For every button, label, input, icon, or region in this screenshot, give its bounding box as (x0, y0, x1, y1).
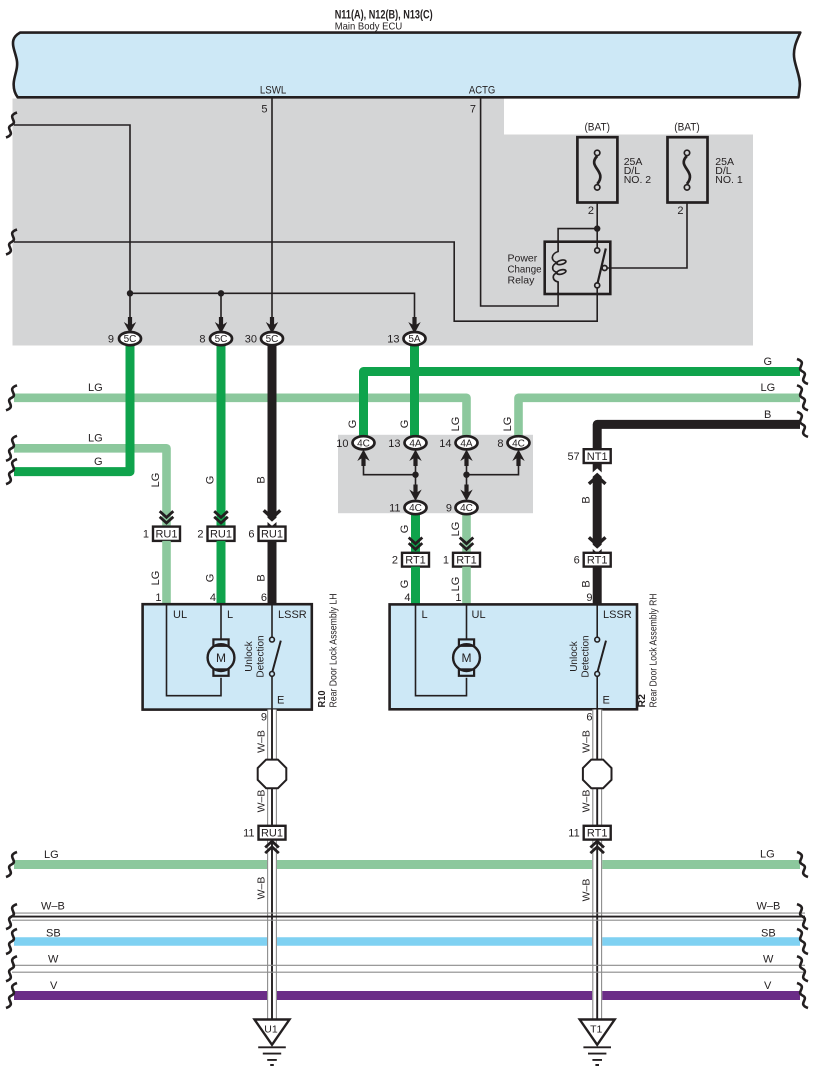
wire W horizontal band double lines (12, 965, 805, 972)
svg-text:7: 7 (470, 104, 476, 116)
svg-text:RU1: RU1 (261, 828, 283, 840)
junction dot coil/fuse node (594, 225, 600, 231)
svg-text:9: 9 (108, 334, 114, 346)
svg-text:B: B (581, 496, 593, 503)
wire ACTG pin7 to relay coil bottom (481, 99, 558, 307)
svg-text:G: G (204, 476, 216, 485)
svg-text:9: 9 (446, 503, 452, 515)
svg-text:2: 2 (588, 205, 594, 217)
svg-text:2: 2 (197, 529, 203, 541)
svg-text:5C: 5C (124, 334, 137, 345)
chevron pair into 6 RT1 (cut into black wire) (589, 543, 606, 550)
svg-text:B: B (764, 409, 771, 421)
break symbol LG band1 left (6, 385, 17, 410)
chevron pair up into 11 RT1 (590, 841, 604, 853)
wire branch down to 8(5C) (220, 293, 222, 323)
svg-text:R2: R2 (636, 694, 648, 708)
wire G band right to 10(4C) (364, 372, 801, 439)
wire from left break to relay switch lower contact (14, 242, 597, 321)
svg-text:11: 11 (389, 503, 400, 515)
W-B wire LH vertical white underlay (267, 710, 277, 1020)
svg-text:V: V (50, 980, 58, 992)
svg-text:RT1: RT1 (587, 555, 608, 567)
wire LG band right to 8(4C) (519, 398, 801, 438)
break symbol SB right (797, 929, 808, 954)
svg-text:L: L (422, 609, 428, 621)
svg-text:6: 6 (586, 712, 592, 724)
svg-text:RT1: RT1 (405, 555, 426, 567)
splice octagon LH (258, 760, 287, 789)
RH inner wiring (416, 605, 467, 696)
svg-text:8: 8 (497, 438, 503, 450)
arrow down into 9(4C) (460, 485, 472, 502)
svg-text:G: G (764, 356, 773, 368)
svg-text:LG: LG (88, 382, 103, 394)
svg-text:E: E (277, 695, 284, 707)
fuse 25A D/L NO.2 (577, 137, 617, 202)
svg-text:6: 6 (574, 555, 580, 567)
break symbol wire A left (6, 113, 17, 138)
LH inner wiring (167, 605, 222, 696)
arrow up into 14(4A) (460, 450, 472, 467)
svg-text:4A: 4A (460, 438, 473, 449)
break symbol G band right (797, 359, 808, 384)
arrow up into 10(4C) (357, 450, 369, 467)
svg-text:4C: 4C (409, 503, 422, 514)
chevron pair up out of NT1 (cut into black wire) (589, 471, 606, 478)
break symbol LG bottom left (6, 852, 17, 877)
svg-text:1: 1 (155, 592, 161, 604)
wire G from 13(5A) down to 13(4A) (410, 339, 419, 438)
svg-text:RU1: RU1 (261, 529, 283, 541)
arrow into 30(5C) (266, 317, 278, 334)
svg-text:2: 2 (392, 555, 398, 567)
svg-text:9: 9 (261, 712, 267, 724)
svg-text:W–B: W–B (41, 901, 65, 913)
svg-text:11: 11 (568, 828, 579, 840)
svg-text:LG: LG (44, 849, 59, 861)
wire LG RT1 to RH box pin1 (462, 567, 471, 605)
svg-text:W–B: W–B (256, 730, 268, 753)
connector 1 RT1 (453, 553, 480, 567)
ECU N11/N12/N13 block (13, 33, 800, 98)
svg-text:14: 14 (439, 438, 451, 450)
chevron pair into 1 RT1 (460, 538, 474, 550)
svg-text:M: M (462, 651, 472, 665)
break symbol W left (6, 956, 17, 981)
RH unlock detection switch (595, 605, 606, 709)
ground U1 earth lines (258, 1047, 286, 1065)
connector 2 RT1 (402, 553, 429, 567)
svg-text:LG: LG (150, 571, 162, 586)
svg-text:4C: 4C (512, 438, 525, 449)
chevron pair into 1 RU1 (160, 511, 174, 523)
wire LG short band to RU1 pin 1 (14, 448, 167, 527)
arrow into 13(5A) (408, 317, 420, 334)
arrow down into 11(4C) (409, 485, 421, 502)
svg-text:R10: R10 (316, 690, 328, 707)
svg-text:RT1: RT1 (456, 555, 477, 567)
arrow up into 8(4C) (512, 450, 524, 467)
wire B band right to 57 NT1 (597, 424, 800, 450)
svg-text:5A: 5A (408, 334, 421, 345)
svg-text:2: 2 (677, 205, 683, 217)
wire B RU1 to LH box pin6 (268, 541, 277, 605)
W-B wire RH vertical white underlay (592, 710, 602, 1020)
svg-text:4: 4 (404, 592, 410, 604)
break symbol B band right (797, 412, 808, 437)
svg-text:LG: LG (760, 849, 775, 861)
svg-text:1: 1 (455, 592, 461, 604)
wire from left break to node at x130 (to 9 5C) (14, 125, 130, 323)
wire G from 8(5C) down to RU1 (217, 339, 226, 528)
svg-text:Main Body ECU: Main Body ECU (335, 21, 403, 33)
svg-text:5C: 5C (266, 334, 279, 345)
svg-text:4: 4 (210, 592, 216, 604)
svg-text:LG: LG (150, 473, 162, 488)
ECU harness gray panel (13, 99, 754, 346)
svg-text:UL: UL (472, 609, 486, 621)
svg-text:Unlock: Unlock (244, 640, 255, 672)
wire G from 11(4C) to RT1 (411, 508, 420, 553)
svg-text:W: W (48, 954, 59, 966)
svg-text:G: G (204, 574, 216, 583)
svg-text:B: B (255, 476, 267, 483)
connector 6 RT1 (584, 553, 611, 567)
svg-text:Detection: Detection (256, 635, 267, 677)
svg-text:13: 13 (388, 438, 400, 450)
splice octagon RH (583, 760, 612, 789)
fuse 25A D/L NO.1 (668, 137, 708, 202)
svg-text:LG: LG (88, 433, 103, 445)
svg-text:U1: U1 (264, 1024, 278, 1036)
connector 57 NT1 (584, 449, 611, 463)
svg-text:4A: 4A (409, 438, 422, 449)
svg-text:57: 57 (567, 451, 579, 463)
ground T1 triangle (580, 1020, 615, 1045)
wire B RT1 to RH box pin9 (593, 567, 602, 605)
svg-text:Unlock: Unlock (569, 640, 580, 672)
rear door lock assembly LH box R10 (143, 604, 312, 709)
middle connector gray panel (338, 435, 533, 513)
wire W-B horizontal band (white wire, black stripe) (12, 913, 805, 920)
power change relay box (545, 242, 611, 294)
relay coil (552, 242, 566, 294)
svg-text:L: L (227, 609, 233, 621)
svg-text:LG: LG (450, 417, 462, 432)
motor M LH (208, 639, 235, 675)
svg-text:G: G (94, 456, 103, 468)
svg-text:W–B: W–B (581, 879, 593, 902)
svg-text:4C: 4C (357, 438, 370, 449)
wire branch to 8(5C) and 13(5A) (130, 293, 415, 323)
ground T1 earth lines (583, 1047, 611, 1065)
wire G RT1 to RH box pin4 (411, 567, 420, 605)
svg-text:G: G (399, 525, 411, 534)
svg-text:LSSR: LSSR (603, 609, 632, 621)
svg-text:E: E (603, 695, 610, 707)
wire B from 30(5C) down to RU1 (268, 339, 277, 528)
break symbol LG band2 left (6, 436, 17, 461)
arrow into 8(5C) (215, 317, 227, 334)
wire relay coil top to fuse DL2 line (558, 229, 597, 243)
W-B wire RH vertical (white wire, black stripe) (593, 710, 602, 1020)
break symbol W-B band right (797, 904, 808, 929)
svg-text:M: M (216, 651, 226, 665)
chevron pair into 6 RU1 (cut into black wire) (264, 516, 281, 523)
svg-text:W–B: W–B (256, 877, 268, 900)
chevron pair into 2 RT1 (409, 538, 423, 550)
connector oval 8 (4C) (508, 436, 530, 449)
junction dot mid right (463, 472, 469, 478)
svg-text:G: G (399, 420, 411, 429)
connector 2 RU1 (208, 527, 235, 541)
wire LG bottom band (14, 860, 800, 869)
arrow into 9(5C) (124, 317, 136, 334)
connector 11 RT1 bottom (584, 826, 611, 840)
svg-text:30: 30 (245, 334, 257, 346)
svg-text:LG: LG (450, 577, 462, 592)
break symbol V right (797, 983, 808, 1008)
connector oval 14 (4A) (456, 436, 478, 449)
break symbol W-B band left (6, 904, 17, 929)
svg-text:B: B (581, 580, 593, 587)
svg-text:10: 10 (336, 438, 348, 450)
break symbol V left (6, 983, 17, 1008)
svg-text:NO. 1: NO. 1 (715, 174, 743, 186)
svg-text:(BAT): (BAT) (674, 122, 700, 134)
wire B NT1 to 6 RT1 (593, 463, 602, 553)
svg-text:(BAT): (BAT) (584, 122, 610, 134)
svg-text:8: 8 (199, 334, 205, 346)
junction dot mid left (412, 472, 418, 478)
svg-text:B: B (255, 574, 267, 581)
chevron pair into 2 RU1 (214, 511, 228, 523)
svg-text:W–B: W–B (256, 790, 268, 813)
wire SB band (14, 937, 800, 946)
break symbol W right (797, 956, 808, 981)
svg-text:RU1: RU1 (155, 529, 177, 541)
wire V band (14, 991, 800, 1000)
wire fuse DL1 down to relay NO contact (607, 203, 687, 269)
svg-text:LSWL: LSWL (260, 85, 286, 97)
svg-text:T1: T1 (590, 1024, 602, 1036)
wire LG from 9(4C) to RT1 (462, 508, 471, 553)
wire LSWL pin5 to connector 30(5C) (271, 99, 273, 324)
svg-text:6: 6 (261, 592, 267, 604)
connector oval 11 (4C) (405, 501, 427, 514)
W-B wire LH vertical (white wire, black stripe) (268, 710, 277, 1020)
svg-text:Detection: Detection (581, 635, 592, 677)
relay switch contacts and blade (595, 248, 607, 288)
connector oval 13 (5A) (404, 332, 426, 345)
svg-text:SB: SB (761, 928, 776, 940)
wire LG RU1 to LH box pin1 (162, 541, 171, 605)
break symbol LG bottom right (797, 852, 808, 877)
wire G RU1 to LH box pin4 (217, 541, 226, 605)
connector oval 9 (5C) (119, 332, 141, 345)
wire G from 9(5C) to left break (14, 339, 130, 472)
svg-text:G: G (347, 420, 359, 429)
svg-text:9: 9 (586, 592, 592, 604)
svg-text:5C: 5C (215, 334, 228, 345)
break symbol SB left (6, 929, 17, 954)
svg-text:W–B: W–B (581, 790, 593, 813)
svg-text:1: 1 (143, 529, 149, 541)
svg-text:Rear Door Lock Assembly RH: Rear Door Lock Assembly RH (648, 594, 660, 708)
break symbol LG band right (797, 385, 808, 410)
chevron pair up into 11 RU1 (265, 841, 279, 853)
connector oval 30 (5C) (261, 332, 283, 345)
arrow up into 13(4A) (409, 450, 421, 467)
svg-text:13: 13 (387, 334, 399, 346)
svg-text:5: 5 (261, 104, 267, 116)
svg-text:NT1: NT1 (587, 451, 608, 463)
svg-text:RU1: RU1 (210, 529, 232, 541)
junction dot at 130,293 (127, 290, 133, 296)
break symbol wire B left (6, 230, 17, 255)
connector oval 8 (5C) (210, 332, 232, 345)
svg-text:RT1: RT1 (587, 828, 608, 840)
motor M RH (453, 639, 480, 675)
ground U1 triangle (255, 1020, 290, 1045)
svg-text:W–B: W–B (757, 901, 781, 913)
connector oval 13 (4A) (405, 436, 427, 449)
connector oval 10 (4C) (353, 436, 375, 449)
break symbol G band left (6, 459, 17, 484)
wire fuse DL2 down to relay switch top contact (596, 203, 598, 249)
svg-text:Relay: Relay (508, 275, 536, 287)
junction dot at 221,293 (218, 290, 224, 296)
svg-text:Rear Door Lock Assembly LH: Rear Door Lock Assembly LH (328, 594, 340, 708)
svg-text:6: 6 (248, 529, 254, 541)
svg-text:4C: 4C (460, 503, 473, 514)
svg-text:V: V (764, 980, 772, 992)
rear door lock assembly RH box R2 (390, 604, 637, 709)
connector 11 RU1 bottom (259, 826, 286, 840)
svg-text:11: 11 (243, 828, 254, 840)
wire LG horizontal band left, to 14(4A) (14, 398, 467, 438)
svg-text:UL: UL (173, 609, 187, 621)
svg-text:LG: LG (761, 382, 776, 394)
svg-text:LG: LG (502, 417, 514, 432)
junction wiring inside middle gray panel (364, 451, 416, 475)
connector 6 RU1 (259, 527, 286, 541)
svg-text:ACTG: ACTG (469, 85, 495, 97)
svg-text:SB: SB (46, 928, 61, 940)
svg-text:LSSR: LSSR (278, 609, 307, 621)
svg-text:N11(A), N12(B), N13(C): N11(A), N12(B), N13(C) (335, 8, 433, 22)
svg-text:W: W (763, 954, 774, 966)
connector oval 9 (4C) (456, 501, 478, 514)
svg-text:W–B: W–B (581, 730, 593, 753)
LH unlock detection switch (270, 605, 281, 709)
connector 1 RU1 (153, 527, 180, 541)
svg-text:1: 1 (443, 555, 449, 567)
svg-text:G: G (399, 580, 411, 589)
svg-text:NO. 2: NO. 2 (624, 174, 652, 186)
svg-text:LG: LG (450, 522, 462, 537)
